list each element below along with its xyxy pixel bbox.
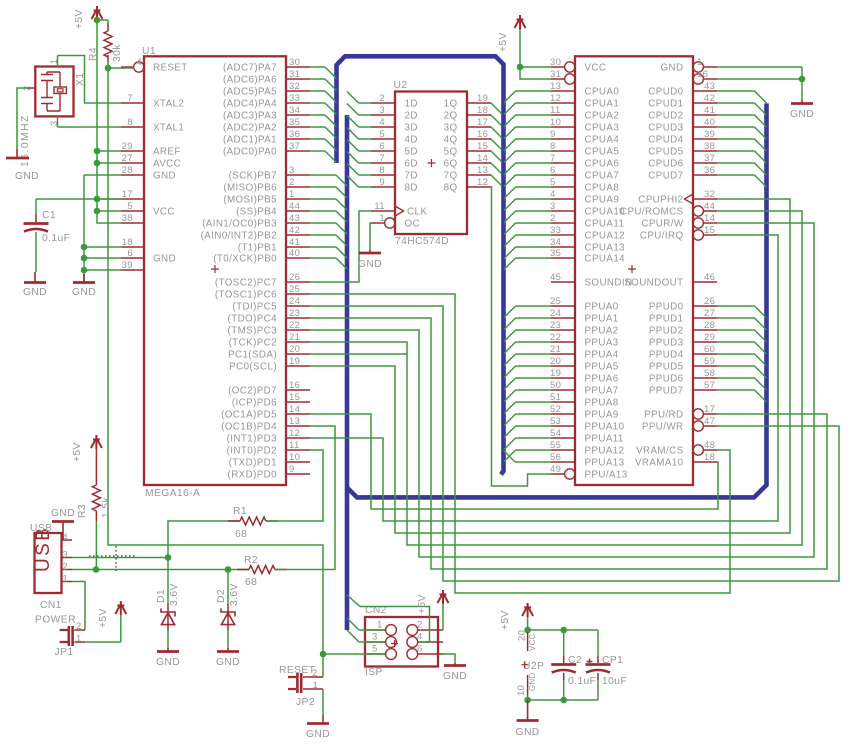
- resistor R4 30k pullup: [97, 19, 108, 21]
- U1 pin 21 (TCK)PC2 right: [286, 341, 310, 343]
- svg-text:17: 17: [477, 117, 488, 128]
- svg-text:4Q: 4Q: [444, 135, 458, 146]
- svg-text:6: 6: [379, 141, 385, 152]
- U1 pin 20 PC1(SDA) right: [286, 353, 310, 355]
- svg-text:CPUA0: CPUA0: [585, 87, 620, 98]
- svg-text:6D: 6D: [405, 159, 418, 170]
- svg-text:0.1uF: 0.1uF: [42, 233, 70, 244]
- U3 pin 44 CPU/ROMCS right: [703, 210, 717, 212]
- svg-text:1.5k: 1.5k: [101, 496, 112, 518]
- CN1 pin 1: [62, 581, 73, 583]
- U1 pin 22 (TMS)PC3 right: [286, 329, 310, 331]
- svg-text:(AIN1/OC0)PB3: (AIN1/OC0)PB3: [202, 219, 277, 230]
- wire USB D+ pin3: [72, 557, 168, 559]
- wires U2 inputs 1D-8D rips from bus x347: [347, 92, 359, 104]
- wire GND rail x84: [84, 174, 121, 176]
- svg-text:41: 41: [289, 237, 300, 248]
- svg-text:3: 3: [372, 632, 378, 643]
- svg-text:6Q: 6Q: [444, 159, 458, 170]
- svg-text:33: 33: [289, 93, 300, 104]
- svg-text:23: 23: [289, 308, 300, 319]
- svg-text:7: 7: [127, 93, 133, 104]
- U3 pin 32 CPUPHI2 right: [693, 198, 717, 200]
- U1 pin 10 (TXD)PD1 right: [286, 461, 310, 463]
- U3 pin 11 CPUA2 left: [551, 114, 575, 116]
- svg-text:2: 2: [379, 93, 385, 104]
- svg-text:37: 37: [704, 153, 715, 164]
- svg-text:38: 38: [122, 213, 133, 224]
- svg-text:10: 10: [289, 452, 300, 463]
- U2 pin 7 6D left: [371, 162, 395, 164]
- wire U2P VCC rail: [528, 629, 598, 631]
- svg-text:CPUA1: CPUA1: [585, 99, 620, 110]
- svg-text:C1: C1: [42, 210, 56, 221]
- net PC5 route: U1 pin24 to y582 to U3 pin47: [310, 306, 839, 581]
- svg-text:46: 46: [704, 272, 715, 283]
- svg-text:32: 32: [704, 189, 715, 200]
- svg-text:+5V: +5V: [72, 442, 83, 462]
- junction D-/R3: [93, 566, 100, 573]
- junction RESET node: [105, 65, 112, 72]
- svg-text:39: 39: [704, 129, 715, 140]
- junction U3 GND: [799, 76, 806, 83]
- svg-text:CPU/ROMCS: CPU/ROMCS: [620, 207, 684, 218]
- svg-text:+5V: +5V: [74, 9, 85, 29]
- U2 pin 6 5D left: [371, 150, 395, 152]
- U1 pin 37 (ADC0)PA0 right: [286, 150, 310, 152]
- CN1 pin 3: [62, 557, 73, 559]
- wire USB VBUS pin1 to JP1: [72, 582, 85, 631]
- svg-text:CPUA2: CPUA2: [585, 111, 620, 122]
- svg-text:14: 14: [289, 404, 300, 415]
- U2 pin 15 5Q right: [467, 150, 491, 152]
- U1 pin 29 AREF left: [121, 150, 144, 152]
- svg-text:20: 20: [550, 356, 561, 367]
- svg-text:(INT0)PD2: (INT0)PD2: [227, 446, 277, 457]
- svg-text:19: 19: [289, 356, 300, 367]
- svg-text:25: 25: [550, 296, 561, 307]
- ic U1 MEGA16-A body: [144, 56, 286, 485]
- svg-text:XTAL2: XTAL2: [153, 99, 184, 110]
- svg-text:PPUA6: PPUA6: [585, 374, 619, 385]
- svg-text:25: 25: [289, 284, 300, 295]
- junction D-/D2: [225, 566, 232, 573]
- svg-text:CPUA3: CPUA3: [585, 123, 620, 134]
- net PD3-IRQ: U1 pin12 to U3 pin15: [310, 235, 778, 521]
- U3 pin 16 right: [703, 78, 717, 80]
- svg-text:8Q: 8Q: [444, 183, 458, 194]
- svg-text:CPUD5: CPUD5: [648, 147, 683, 158]
- svg-text:18: 18: [704, 452, 715, 463]
- svg-text:CPUA11: CPUA11: [585, 219, 625, 230]
- svg-text:7: 7: [379, 153, 385, 164]
- svg-text:(ADC2)PA2: (ADC2)PA2: [223, 123, 277, 134]
- svg-text:24: 24: [289, 296, 300, 307]
- svg-text:22: 22: [289, 320, 300, 331]
- ground GND under JP2: [307, 722, 329, 725]
- svg-text:(SS)PB4: (SS)PB4: [236, 207, 277, 218]
- svg-text:1: 1: [62, 574, 68, 585]
- U3 pin 23 PPUA2 left: [551, 329, 575, 331]
- svg-text:24: 24: [550, 308, 561, 319]
- svg-text:PPU/RD: PPU/RD: [644, 410, 683, 421]
- svg-text:XTAL1: XTAL1: [153, 123, 184, 134]
- CN1 pin 2: [62, 569, 73, 571]
- svg-text:2: 2: [312, 668, 318, 679]
- U3 pin 60 PPUD4 right: [693, 353, 717, 355]
- net PC2 route: U1 pin21 to y546 to U3 pin44: [310, 211, 802, 545]
- U3 pin 33 CPUA12 left: [551, 234, 575, 236]
- svg-text:3: 3: [379, 105, 385, 116]
- wire X1 pin2 to GND: [27, 87, 35, 89]
- svg-text:PC0(SCL): PC0(SCL): [229, 362, 277, 373]
- U3 pin 28 PPUD2 right: [693, 329, 717, 331]
- svg-text:AVCC: AVCC: [153, 159, 181, 170]
- wires U1 PB0-PB7 rips into bus x347: [310, 174, 336, 176]
- U1 pin 8 XTAL1 left: [121, 126, 144, 128]
- svg-text:2: 2: [76, 621, 82, 632]
- svg-text:37: 37: [289, 141, 300, 152]
- svg-text:5: 5: [127, 201, 133, 212]
- U3 pin 59 PPUD5 right: [693, 365, 717, 367]
- U2 pin 11 CLK with clock mark: [371, 210, 395, 212]
- svg-text:49: 49: [550, 464, 561, 475]
- svg-text:20: 20: [289, 344, 300, 355]
- U1 pin 23 (TDO)PC4 right: [286, 317, 310, 319]
- svg-text:58: 58: [704, 368, 715, 379]
- svg-text:CPUD7: CPUD7: [648, 171, 683, 182]
- U2 pin 1 OC with bubble: [371, 222, 385, 224]
- capacitor C1 0.1uF: [35, 214, 37, 222]
- wire VCC to C1: [36, 198, 121, 200]
- svg-text:R4: R4: [88, 47, 99, 61]
- wire RESET net: R4 to U1 pin4 and down to JP2/ISP: [108, 67, 134, 69]
- svg-text:PPUD0: PPUD0: [649, 302, 684, 313]
- U3 pin 5 CPUA8 left: [551, 186, 575, 188]
- svg-text:PPUA12: PPUA12: [585, 446, 625, 457]
- svg-text:(AIN0/INT2)PB2: (AIN0/INT2)PB2: [201, 231, 277, 242]
- svg-text:33: 33: [550, 225, 561, 236]
- svg-text:(INT1)PD3: (INT1)PD3: [227, 434, 278, 445]
- svg-text:CPUD3: CPUD3: [648, 123, 683, 134]
- wire bus rip to ISP pin1 MISO: [347, 618, 359, 630]
- svg-text:8: 8: [127, 117, 133, 128]
- svg-text:R3: R3: [77, 504, 88, 518]
- CN1 pin 4: [62, 539, 73, 541]
- svg-text:2D: 2D: [405, 111, 418, 122]
- junction D+/R1/D1: [165, 554, 172, 561]
- svg-text:GND: GND: [153, 171, 176, 182]
- svg-text:44: 44: [704, 201, 715, 212]
- wire MOSI from bus end to ISP pin4: [347, 595, 360, 607]
- U3 pin 25 PPUA0 left: [551, 305, 575, 307]
- svg-text:CPUA5: CPUA5: [585, 147, 620, 158]
- svg-text:1: 1: [289, 189, 295, 200]
- U1 pin 5 VCC left: [121, 210, 144, 212]
- svg-text:3: 3: [62, 550, 68, 561]
- svg-text:(ADC1)PA1: (ADC1)PA1: [223, 135, 277, 146]
- svg-text:31: 31: [550, 69, 561, 80]
- svg-text:14: 14: [477, 153, 488, 164]
- net PC0 route: U1 pin19 to bottom rail y534 to U3 pin32: [310, 199, 790, 533]
- svg-text:7Q: 7Q: [444, 171, 458, 182]
- svg-text:+5V: +5V: [498, 32, 509, 52]
- diode D1 zener 3.6V: [167, 558, 169, 606]
- U2 pin 5 4D left: [371, 138, 395, 140]
- wire U2P GND rail: [528, 695, 598, 700]
- svg-text:34: 34: [289, 105, 300, 116]
- svg-text:SOUNDOUT: SOUNDOUT: [624, 278, 683, 289]
- ground GND under U2 OC: [369, 250, 371, 253]
- wires U3 left PPUA rips from bus x505: [504, 306, 516, 318]
- svg-text:CPUA4: CPUA4: [585, 135, 620, 146]
- U1 pin 2 (MISO)PB6 right: [286, 186, 310, 188]
- svg-text:GND: GND: [153, 254, 176, 265]
- svg-text:6: 6: [127, 248, 133, 259]
- U3 pin 41 CPUD2 right: [693, 114, 717, 116]
- svg-text:1: 1: [313, 680, 319, 691]
- svg-text:CPUA12: CPUA12: [585, 231, 626, 242]
- svg-text:41: 41: [704, 105, 715, 116]
- U2 pin 16 4Q right: [467, 138, 491, 140]
- U3 pin 34 CPUA13 left: [551, 246, 575, 248]
- U3 pin 6 CPUA7 left: [551, 174, 575, 176]
- U3 pin 13 CPUA0 left: [551, 90, 575, 92]
- U2 pin 19 1Q right: [467, 102, 491, 104]
- svg-text:19: 19: [550, 368, 561, 379]
- junction U2P GND stem: [524, 697, 531, 704]
- svg-text:GND: GND: [23, 287, 47, 298]
- svg-text:(OC1B)PD4: (OC1B)PD4: [221, 422, 277, 433]
- svg-text:CPU/IRQ: CPU/IRQ: [640, 231, 684, 242]
- +5V symbol at JP1 pin1: [115, 601, 126, 615]
- svg-text:PPUD1: PPUD1: [649, 314, 684, 325]
- U3 pin 8 CPUA5 left: [551, 150, 575, 152]
- U2 pin 4 3D left: [371, 126, 395, 128]
- capacitor CP1 10uF polarized: [597, 630, 599, 656]
- svg-text:12: 12: [477, 177, 488, 188]
- svg-text:2: 2: [289, 177, 295, 188]
- svg-text:GND: GND: [358, 259, 382, 270]
- svg-text:U1: U1: [142, 46, 156, 57]
- U1 pin 41 (T1)PB1 right: [286, 246, 310, 248]
- U3 pin 14 CPUR/W right: [703, 222, 717, 224]
- U3 pin 36 CPUD7 right: [693, 174, 717, 176]
- svg-text:PPUD2: PPUD2: [649, 326, 684, 337]
- wire X1 pin1 to U1 XTAL2: [57, 56, 59, 67]
- U3 pin 49 PPU/A13 left: [551, 473, 565, 475]
- U1 pin 25 (TOSC1)PC6 right: [286, 293, 310, 295]
- resistor R1 68: [168, 521, 240, 558]
- svg-text:VRAMA10: VRAMA10: [635, 458, 684, 469]
- U1 pin 19 PC0(SCL) right: [286, 365, 310, 367]
- svg-text:PPUD4: PPUD4: [649, 350, 684, 361]
- svg-text:PPUA4: PPUA4: [585, 350, 619, 361]
- svg-text:9: 9: [289, 464, 295, 475]
- U1 pin 24 (TDI)PC5 right: [286, 305, 310, 307]
- svg-text:USB: USB: [30, 523, 52, 534]
- svg-text:(ADC3)PA3: (ADC3)PA3: [223, 111, 277, 122]
- jumper JP2 RESET: [288, 677, 296, 689]
- U3 pin 47 PPU/WR right: [703, 425, 717, 427]
- ic U2 74HC574D body: [395, 92, 467, 235]
- svg-text:0.1uF: 0.1uF: [568, 676, 596, 687]
- svg-text:38: 38: [704, 141, 715, 152]
- svg-text:40: 40: [704, 117, 715, 128]
- U3 pin 15 CPU/IRQ right: [703, 234, 717, 236]
- U1 pin 16 (OC2)PD7 right: [286, 389, 310, 391]
- U1 pin 17 left: [121, 198, 144, 200]
- svg-text:11: 11: [289, 440, 300, 451]
- svg-text:PPUA5: PPUA5: [585, 362, 619, 373]
- svg-text:40: 40: [289, 248, 300, 259]
- svg-text:1D: 1D: [405, 99, 418, 110]
- svg-text:(ADC7)PA7: (ADC7)PA7: [223, 63, 277, 74]
- svg-text:1: 1: [379, 213, 385, 224]
- U1 pin 13 (OC1B)PD4 right: [286, 425, 310, 427]
- wires U2 outputs 1Q-7Q rips into bus x505: [491, 103, 502, 114]
- svg-text:10uF: 10uF: [602, 676, 627, 687]
- svg-text:15: 15: [704, 225, 715, 236]
- svg-text:PPUD7: PPUD7: [649, 386, 684, 397]
- svg-text:47: 47: [704, 416, 715, 427]
- svg-text:(TDO)PC4: (TDO)PC4: [228, 314, 278, 325]
- supply pins U2P (74HC574 power): [527, 632, 529, 651]
- U3 pin 53 PPUA10 left: [551, 425, 575, 427]
- connector CN2 ISP body: [365, 617, 438, 667]
- svg-text:34: 34: [550, 237, 561, 248]
- svg-text:21: 21: [289, 332, 300, 343]
- ground GND under rail x84: [83, 274, 85, 283]
- svg-text:12: 12: [550, 93, 561, 104]
- svg-text:9: 9: [379, 177, 385, 188]
- U1 pin 28 GND left: [121, 174, 144, 176]
- U1 pin 43 (AIN1/OC0)PB3 right: [286, 222, 310, 224]
- svg-text:R2: R2: [244, 555, 258, 566]
- svg-text:CPUPHI2: CPUPHI2: [638, 195, 683, 206]
- svg-text:51: 51: [550, 392, 561, 403]
- svg-text:19: 19: [477, 93, 488, 104]
- svg-text:RESET: RESET: [153, 63, 188, 74]
- svg-text:53: 53: [550, 416, 561, 427]
- svg-text:(SCK)PB7: (SCK)PB7: [229, 171, 277, 182]
- svg-text:11: 11: [374, 201, 385, 212]
- U1 pin 36 (ADC1)PA1 right: [286, 138, 310, 140]
- svg-text:4: 4: [417, 632, 423, 643]
- wire bus rip to ISP pin3 SCK: [347, 630, 359, 642]
- svg-text:5: 5: [379, 129, 385, 140]
- svg-text:JP1: JP1: [55, 647, 74, 658]
- svg-text:32: 32: [289, 81, 300, 92]
- U3 pin 2 CPUA11 left: [551, 222, 575, 224]
- svg-text:4: 4: [136, 57, 142, 68]
- U2 pin 13 7Q right: [467, 174, 491, 176]
- U1 pin 38 left: [121, 222, 144, 224]
- U3 pin 55 PPUA12 left: [551, 449, 575, 451]
- U1 pin 3 (SCK)PB7 right: [286, 174, 310, 176]
- svg-text:2Q: 2Q: [444, 111, 458, 122]
- U3 pin 26 PPUD0 right: [693, 305, 717, 307]
- svg-text:15: 15: [477, 141, 488, 152]
- svg-text:PPUA3: PPUA3: [585, 338, 619, 349]
- junction U2P VCC stem: [524, 627, 531, 634]
- U1 pin 7 XTAL2 left: [121, 102, 144, 104]
- svg-text:PPU/WR: PPU/WR: [642, 422, 684, 433]
- ground GND under X1: [6, 157, 29, 160]
- CN2 pins 5,6: [365, 653, 385, 655]
- svg-text:CP1: CP1: [602, 655, 623, 666]
- svg-text:CPUD6: CPUD6: [648, 159, 683, 170]
- junction C2 top: [560, 627, 567, 634]
- svg-text:31: 31: [289, 69, 300, 80]
- svg-text:PPUA1: PPUA1: [585, 314, 619, 325]
- svg-text:30: 30: [289, 57, 300, 68]
- svg-text:23: 23: [550, 320, 561, 331]
- U1 pin 18 left: [121, 246, 144, 248]
- svg-text:PPUD5: PPUD5: [649, 362, 684, 373]
- U3 pin 22 PPUA3 left: [551, 341, 575, 343]
- svg-text:JP2: JP2: [296, 697, 315, 708]
- svg-text:(TCK)PC2: (TCK)PC2: [229, 338, 277, 349]
- svg-text:43: 43: [289, 213, 300, 224]
- svg-text:1: 1: [377, 620, 383, 631]
- svg-text:C2: C2: [568, 655, 582, 666]
- svg-text:42: 42: [704, 93, 715, 104]
- U1 pin 4 RESET left: [121, 66, 134, 68]
- svg-text:U2: U2: [394, 80, 408, 91]
- svg-text:3.6V: 3.6V: [229, 583, 240, 606]
- wire +5V to U3 VCC pins 30,31: [520, 66, 551, 68]
- U2 pin 3 2D left: [371, 114, 395, 116]
- resistor R3 1.5k pullup: [91, 435, 102, 449]
- svg-text:CLK: CLK: [407, 207, 427, 218]
- wire U3 pin56 PPUA13 rip (from above, bus tip): [504, 451, 516, 463]
- svg-text:14: 14: [704, 213, 715, 224]
- svg-text:35: 35: [550, 248, 561, 259]
- svg-text:8D: 8D: [405, 183, 418, 194]
- U3 pin 3 CPUA10 left: [551, 210, 575, 212]
- bus B1 segment x347 (U1 PB side, down to ISP): [345, 115, 350, 630]
- svg-text:PPUA2: PPUA2: [585, 326, 619, 337]
- svg-text:CPUD4: CPUD4: [648, 135, 683, 146]
- svg-text:CPUD1: CPUD1: [648, 99, 683, 110]
- svg-text:48: 48: [704, 440, 715, 451]
- svg-text:(TDI)PC5: (TDI)PC5: [232, 302, 277, 313]
- ground GND under D2: [227, 648, 229, 652]
- U3 pin 27 PPUD1 right: [693, 317, 717, 319]
- svg-text:(T1)PB1: (T1)PB1: [238, 243, 277, 254]
- wire U3 GND pins 1,16 to GND: [717, 66, 802, 68]
- svg-text:4: 4: [379, 117, 385, 128]
- junction C2 bottom: [560, 697, 567, 704]
- svg-text:GND: GND: [216, 657, 240, 668]
- svg-text:VCC: VCC: [153, 207, 175, 218]
- svg-text:GND: GND: [306, 729, 330, 740]
- svg-text:ISP: ISP: [365, 667, 383, 678]
- svg-text:AREF: AREF: [153, 147, 181, 158]
- U1 pin 6 GND left: [121, 257, 144, 259]
- svg-text:43: 43: [704, 81, 715, 92]
- svg-text:(MISO)PB6: (MISO)PB6: [223, 183, 277, 194]
- svg-text:POWER: POWER: [35, 615, 76, 626]
- svg-text:39: 39: [122, 260, 133, 271]
- svg-text:(TXD)PD1: (TXD)PD1: [229, 458, 277, 469]
- svg-text:CPUA7: CPUA7: [585, 171, 620, 182]
- +5V at U2P: [522, 603, 533, 617]
- svg-text:3Q: 3Q: [444, 123, 458, 134]
- svg-text:29: 29: [122, 141, 133, 152]
- svg-text:(T0/XCK)PB0: (T0/XCK)PB0: [213, 254, 277, 265]
